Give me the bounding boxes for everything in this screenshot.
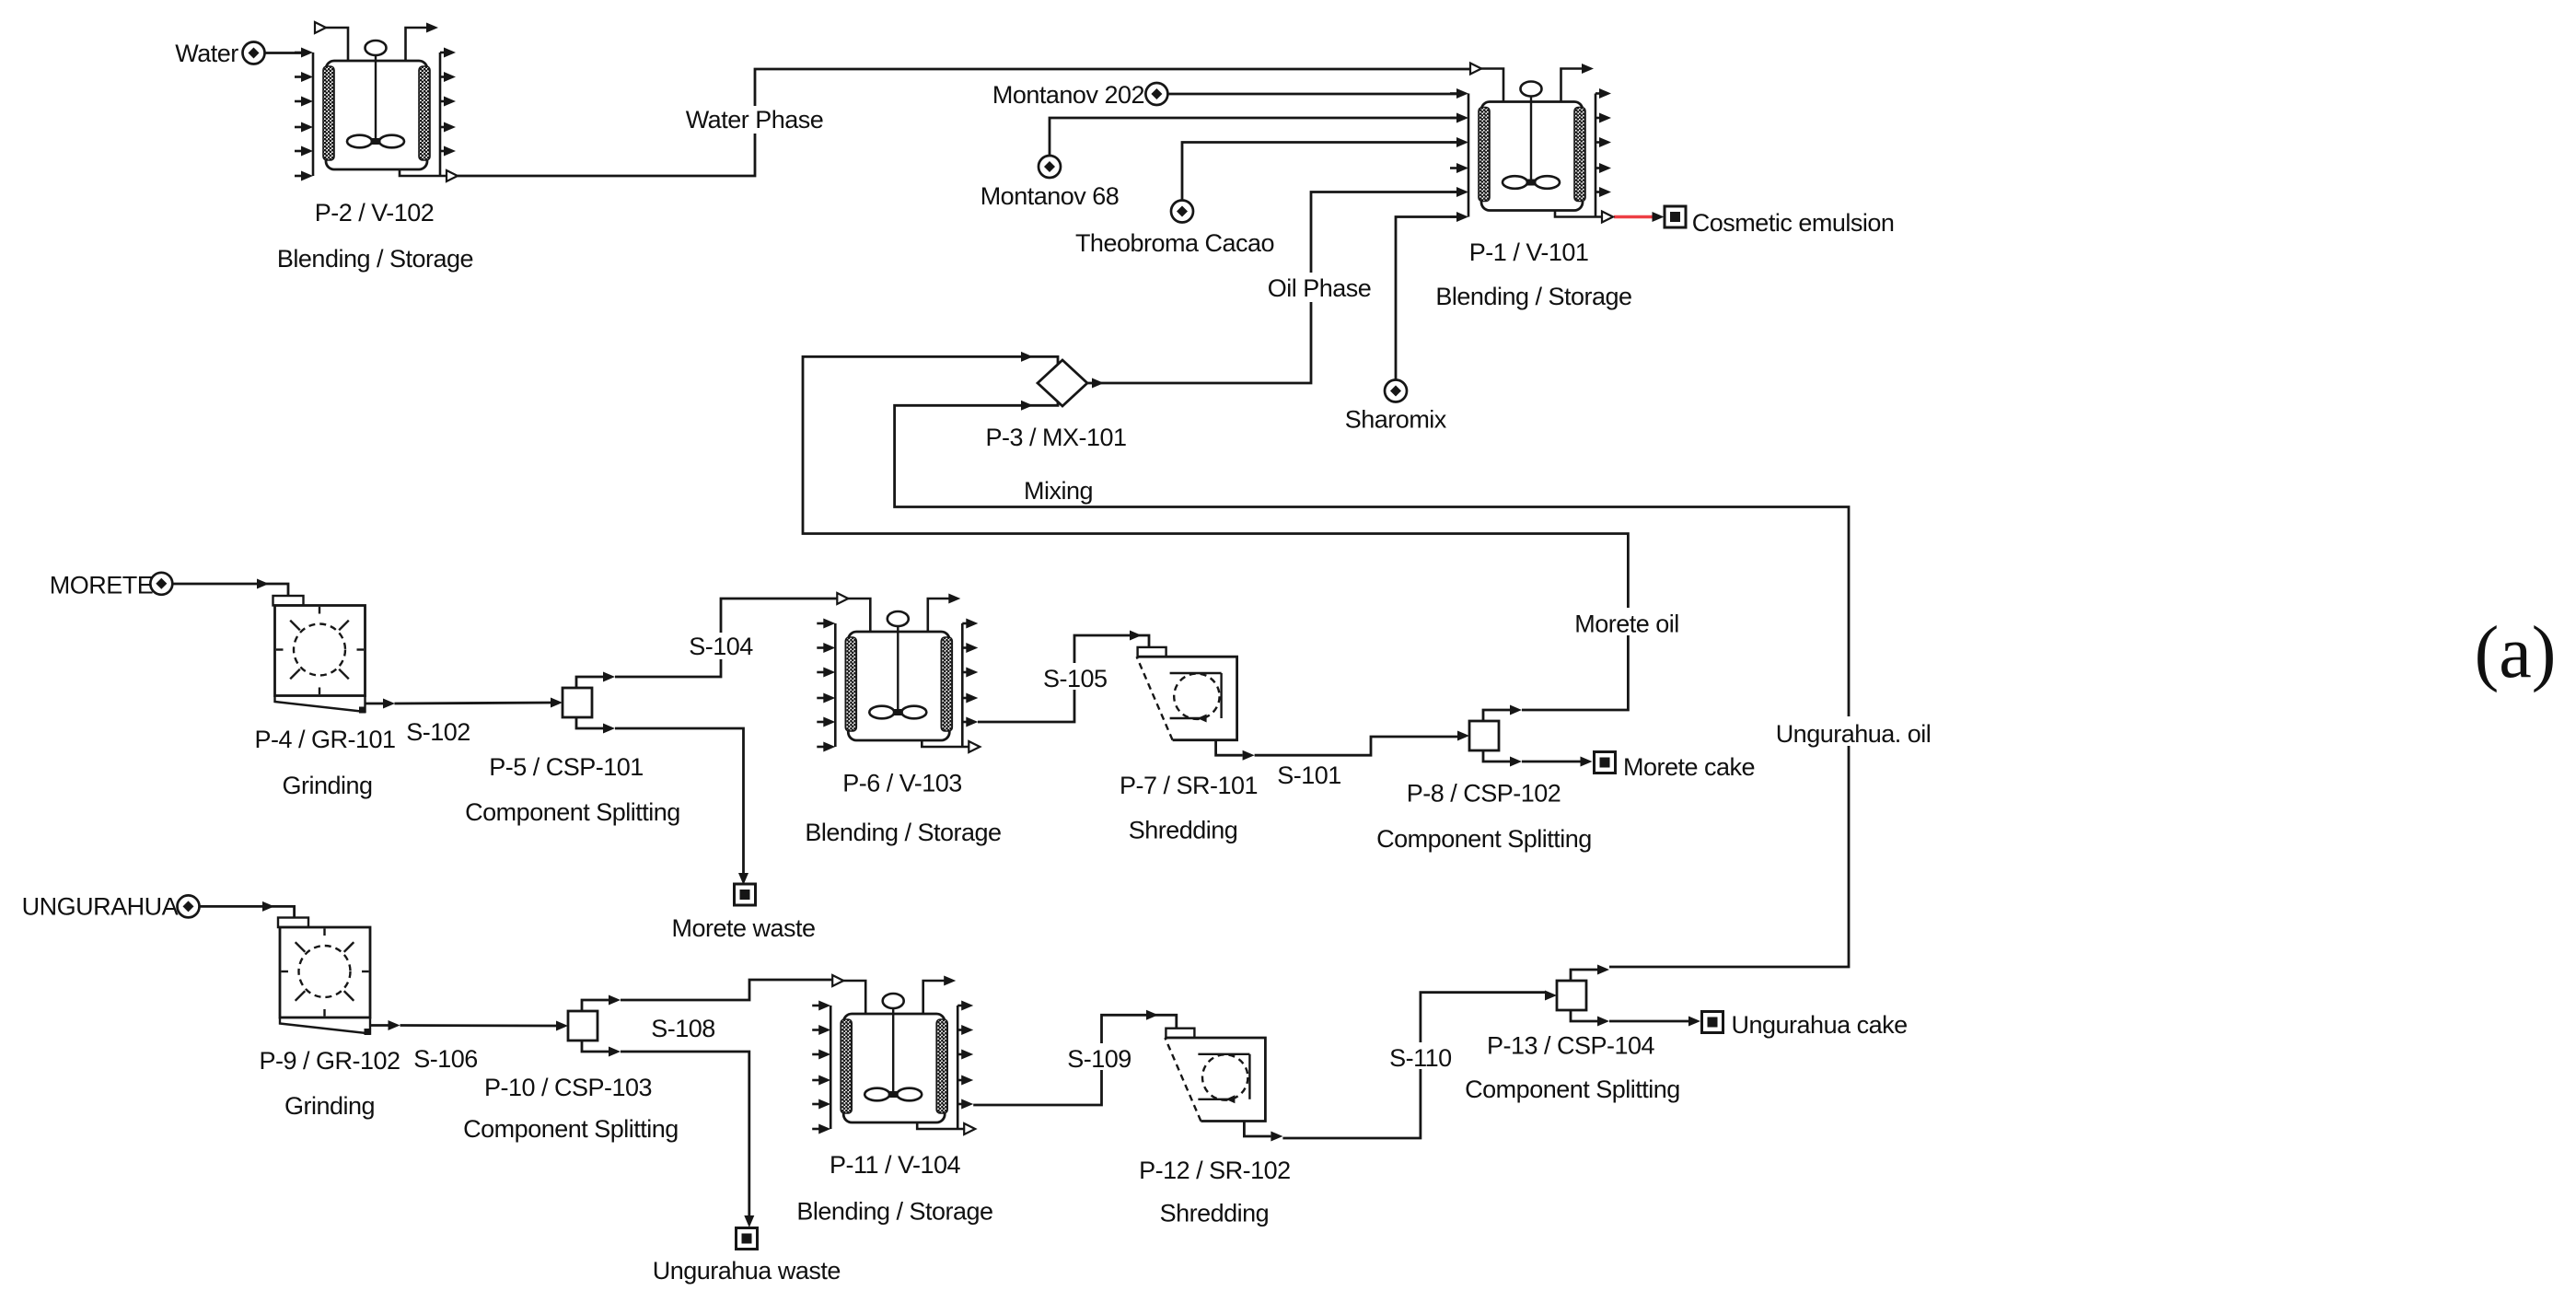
svg-text:S-109: S-109 <box>1067 1045 1131 1073</box>
component splitter P-13 / CSP-104 <box>1545 965 1609 1027</box>
svg-text:Montanov 68: Montanov 68 <box>981 182 1120 210</box>
wire: S-106 stream (GR-102 to CSP-103) <box>400 1024 558 1027</box>
output sink icon Ungurahua waste <box>737 1228 758 1250</box>
wire: Theobroma Cacao stream <box>1182 143 1456 202</box>
wire: Ungurahua waste stream (CSP-103 to sink) <box>621 1052 749 1216</box>
svg-text:Blending / Storage: Blending / Storage <box>277 245 473 273</box>
wire: S-108 stream (CSP-103 to V-104) <box>621 980 832 1000</box>
component splitter P-10 / CSP-103 <box>556 995 621 1057</box>
svg-text:Grinding: Grinding <box>284 1092 375 1120</box>
svg-text:Shredding: Shredding <box>1129 817 1238 844</box>
input source icon UNGURAHUA <box>178 895 200 917</box>
svg-text:Component Splitting: Component Splitting <box>463 1115 679 1143</box>
input source icon Water <box>243 42 265 64</box>
wire: Oil Phase stream (mixer outlet to P-1) <box>1087 192 1456 384</box>
wire: MORETE inlet stream <box>171 584 288 596</box>
wire: S-109 stream (V-104 to SR-102) <box>973 1015 1177 1105</box>
svg-text:Grinding: Grinding <box>282 772 372 799</box>
vessel P-11 / V-104 (blending/storage tank with agitator and port manifolds) <box>812 975 975 1134</box>
shredder P-12 / SR-102 <box>1165 1029 1282 1142</box>
component splitter P-8 / CSP-102 <box>1457 705 1522 767</box>
wire: Water Phase stream (P-2 bottom outlet to P-1 top inlet) <box>458 69 1470 176</box>
component splitter P-5 / CSP-101 <box>551 672 615 734</box>
svg-text:S-101: S-101 <box>1277 762 1341 789</box>
label: Oil Phase <box>1270 273 1369 302</box>
svg-text:S-110: S-110 <box>1389 1044 1452 1072</box>
wire: S-102 stream (GR-101 to CSP-101) <box>395 703 558 704</box>
svg-text:P-7 / SR-101: P-7 / SR-101 <box>1120 772 1258 799</box>
svg-text:MORETE: MORETE <box>50 571 154 599</box>
mixer P-3 / MX-101 (diamond) <box>1038 360 1087 406</box>
wire: Ungurahua cake stream <box>1609 1020 1689 1023</box>
svg-text:Ungurahua cake: Ungurahua cake <box>1732 1011 1908 1039</box>
svg-text:Blending / Storage: Blending / Storage <box>1435 283 1631 310</box>
wire: Morete cake stream <box>1522 761 1581 763</box>
output sink icon Morete waste <box>735 884 756 905</box>
output sink icon Cosmetic emulsion <box>1665 206 1686 227</box>
wire: Water inlet stream <box>263 52 302 54</box>
output sink icon Morete cake <box>1595 752 1616 773</box>
svg-text:Ungurahua waste: Ungurahua waste <box>653 1257 841 1285</box>
svg-text:Water Phase: Water Phase <box>686 106 824 134</box>
wire: Sharomix stream <box>1396 217 1456 382</box>
svg-text:Ungurahua. oil: Ungurahua. oil <box>1776 720 1932 748</box>
grinder P-4 / GR-101 <box>273 596 396 714</box>
svg-text:P-6 / V-103: P-6 / V-103 <box>842 770 962 797</box>
svg-text:Blending / Storage: Blending / Storage <box>796 1198 992 1226</box>
input source icon Theobroma Cacao <box>1171 201 1193 223</box>
input source icon Sharomix <box>1385 380 1407 402</box>
label: S-104 <box>686 633 756 659</box>
svg-text:Morete waste: Morete waste <box>671 914 815 942</box>
svg-text:P-12 / SR-102: P-12 / SR-102 <box>1139 1157 1291 1184</box>
svg-text:Oil Phase: Oil Phase <box>1268 274 1372 302</box>
wire: Cosmetic emulsion stream (red) <box>1614 215 1654 218</box>
vessel P-1 / V-101 (blending/storage tank with agitator and port manifolds) <box>1450 64 1613 223</box>
svg-text:P-5 / CSP-101: P-5 / CSP-101 <box>489 753 644 781</box>
svg-text:Component Splitting: Component Splitting <box>1465 1076 1680 1103</box>
wire: Morete oil stream (CSP-102 to mixer top inlet) <box>803 356 1628 710</box>
wire: S-101 stream (SR-101 to CSP-102) <box>1255 737 1458 755</box>
svg-text:Montanov 202: Montanov 202 <box>992 81 1144 109</box>
shredder P-7 / SR-101 <box>1137 647 1255 761</box>
grinder P-9 / GR-102 <box>278 918 400 1036</box>
svg-text:S-102: S-102 <box>406 718 470 746</box>
svg-text:S-105: S-105 <box>1043 665 1108 692</box>
label: S-109 <box>1066 1043 1137 1070</box>
svg-text:P-4 / GR-101: P-4 / GR-101 <box>254 726 395 753</box>
svg-text:Blending / Storage: Blending / Storage <box>805 819 1001 846</box>
svg-text:Sharomix: Sharomix <box>1345 405 1447 433</box>
svg-text:Morete cake: Morete cake <box>1623 753 1755 781</box>
svg-text:(a): (a) <box>2475 612 2557 693</box>
label: Water Phase <box>678 106 831 134</box>
svg-text:S-106: S-106 <box>413 1045 478 1073</box>
wire: Ungurahua oil stream (CSP-104 to mixer bottom inlet) <box>895 396 1849 967</box>
label: Ungurahua. oil <box>1770 716 1937 746</box>
svg-text:P-1 / V-101: P-1 / V-101 <box>1469 238 1589 266</box>
wire: S-104 stream (CSP-101 to V-103) <box>615 599 837 677</box>
svg-text:S-108: S-108 <box>651 1015 715 1042</box>
svg-text:S-104: S-104 <box>689 633 753 660</box>
input source icon Montanov 68 <box>1039 156 1061 178</box>
wire: Montanov 202 stream <box>1166 93 1456 96</box>
wire: UNGURAHUA inlet stream <box>199 906 295 917</box>
svg-text:Morete oil: Morete oil <box>1574 610 1679 637</box>
output sink icon Ungurahua cake <box>1702 1012 1723 1033</box>
svg-text:Component Splitting: Component Splitting <box>465 798 680 826</box>
svg-text:Shredding: Shredding <box>1160 1199 1270 1227</box>
svg-text:P-3 / MX-101: P-3 / MX-101 <box>985 424 1126 451</box>
svg-text:P-8 / CSP-102: P-8 / CSP-102 <box>1407 780 1561 808</box>
vessel P-6 / V-103 (blending/storage tank with agitator and port manifolds) <box>817 593 980 752</box>
input source icon Montanov 202 <box>1145 83 1167 105</box>
wire: Montanov 68 stream <box>1050 118 1456 156</box>
svg-text:P-9 / GR-102: P-9 / GR-102 <box>259 1047 400 1075</box>
svg-text:Cosmetic emulsion: Cosmetic emulsion <box>1692 209 1895 237</box>
svg-text:Water: Water <box>175 40 238 67</box>
wire: S-110 stream (SR-102 to CSP-104) <box>1282 993 1546 1138</box>
vessel P-2 / V-102 (blending/storage tank with agitator and port manifolds) <box>295 22 458 181</box>
svg-text:Mixing: Mixing <box>1024 477 1093 505</box>
svg-text:P-11 / V-104: P-11 / V-104 <box>830 1151 961 1179</box>
input source icon MORETE <box>150 573 172 595</box>
wire: Morete waste stream (CSP-101 to sink) <box>615 728 744 874</box>
svg-text:UNGURAHUA: UNGURAHUA <box>22 893 179 921</box>
svg-text:P-13 / CSP-104: P-13 / CSP-104 <box>1487 1031 1655 1059</box>
svg-text:P-2 / V-102: P-2 / V-102 <box>315 199 435 227</box>
label: S-105 <box>1039 663 1110 690</box>
wire: S-105 stream (V-103 to SR-101) <box>978 635 1149 722</box>
svg-text:Theobroma Cacao: Theobroma Cacao <box>1075 229 1274 257</box>
label: S-110 <box>1386 1042 1456 1069</box>
svg-text:P-10 / CSP-103: P-10 / CSP-103 <box>484 1074 652 1101</box>
svg-text:Component Splitting: Component Splitting <box>1376 825 1592 853</box>
label: Morete oil <box>1569 608 1685 635</box>
